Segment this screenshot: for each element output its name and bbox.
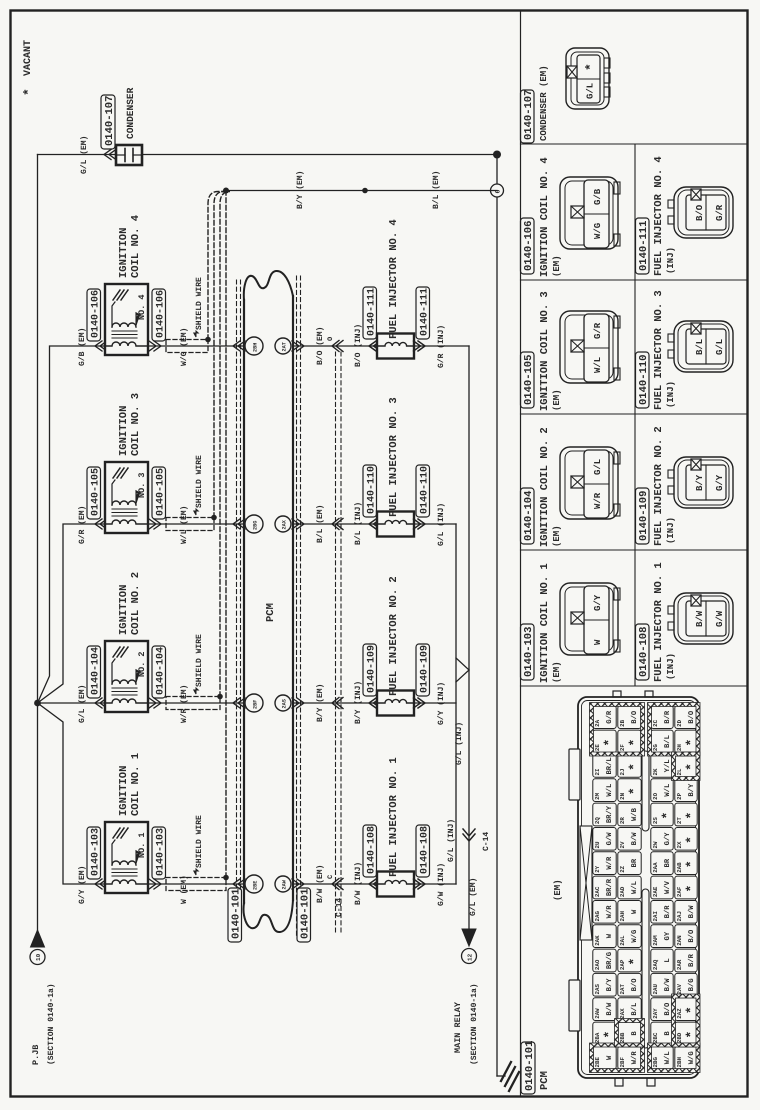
- svg-text:B/Y (INJ): B/Y (INJ): [354, 681, 363, 724]
- PCM pin cell 2U G/W: [593, 827, 616, 850]
- PCM pin cell 2AA BR: [651, 852, 673, 875]
- svg-text:2BC: 2BC: [652, 1032, 659, 1043]
- PCM pin 2AX: [275, 516, 291, 532]
- svg-text:2N: 2N: [619, 792, 626, 799]
- svg-text:(EM): (EM): [552, 661, 562, 683]
- svg-text:2B: 2B: [619, 719, 626, 726]
- svg-text:W (EM): W (EM): [180, 875, 189, 904]
- svg-text:2AD: 2AD: [619, 886, 626, 897]
- panel cell fuel injector no.3: [636, 352, 650, 408]
- wire branch to ignition coil no.1: [38, 703, 106, 884]
- connector label 0140-104 left: [87, 646, 101, 698]
- ignition coil no.1 box: [105, 822, 148, 893]
- svg-text:2BB: 2BB: [619, 1032, 626, 1043]
- connector chevron injector 4 right: [414, 341, 426, 351]
- svg-text:2BG: 2BG: [253, 521, 259, 530]
- svg-text:BR: BR: [664, 858, 672, 867]
- svg-text:B/L (EM): B/L (EM): [316, 505, 325, 543]
- PCM pin cell 2AC BR/R: [593, 876, 616, 899]
- svg-text:SHIELD WIRE: SHIELD WIRE: [195, 634, 204, 687]
- svg-text:0140-104: 0140-104: [156, 647, 167, 695]
- connector chevron injector 1 right: [414, 879, 426, 889]
- svg-text:B/O: B/O: [695, 204, 705, 221]
- svg-text:*: *: [684, 812, 699, 820]
- svg-text:Y/L: Y/L: [663, 759, 672, 772]
- wire branch to ignition coil no.3: [38, 524, 106, 703]
- PCM connector side latch lower: [569, 980, 580, 1031]
- PCM pin cell 2V B/W: [618, 827, 641, 850]
- PCM pin cell 2I BR/L: [593, 754, 616, 777]
- svg-text:G/R: G/R: [605, 710, 614, 724]
- coil 3 internal ground: [113, 468, 120, 478]
- coil 1 core: [112, 875, 137, 877]
- connector C-14 harness boundary dashed lines: [335, 352, 337, 935]
- svg-text:G/B (EM): G/B (EM): [78, 328, 87, 366]
- svg-text:2E: 2E: [594, 744, 601, 751]
- svg-text:W/G: W/G: [630, 930, 639, 943]
- panel cell fuel injector no.2: [636, 488, 650, 544]
- connector label 0140-101 left: [228, 888, 242, 942]
- connector chevron injector 2 right: [414, 698, 426, 708]
- svg-text:VACANT: VACANT: [23, 40, 34, 76]
- svg-text:W: W: [606, 1055, 614, 1060]
- connector C-14 chevron row 3: [332, 519, 343, 530]
- svg-text:0140-111: 0140-111: [420, 288, 431, 336]
- svg-text:*: *: [684, 860, 699, 868]
- shield wire box coil 3: [166, 518, 214, 531]
- svg-text:0140-106: 0140-106: [156, 290, 167, 338]
- svg-text:NO. 4: NO. 4: [137, 294, 147, 320]
- svg-text:0140-106: 0140-106: [91, 290, 102, 338]
- svg-text:2BE: 2BE: [253, 881, 259, 890]
- coil 2 core: [112, 694, 137, 696]
- svg-text:G/W: G/W: [605, 832, 614, 846]
- connector drawing condenser: [566, 48, 609, 109]
- svg-text:0140-110: 0140-110: [638, 355, 650, 405]
- svg-text:G/B: G/B: [593, 188, 603, 205]
- svg-text:G/Y: G/Y: [663, 832, 672, 846]
- svg-text:FUEL INJECTOR NO. 3: FUEL INJECTOR NO. 3: [653, 290, 665, 410]
- PCM pin cell 2B B/O: [618, 706, 641, 729]
- coil 2 internal ground: [113, 647, 120, 657]
- svg-text:2AC: 2AC: [594, 886, 601, 897]
- svg-text:2AT: 2AT: [282, 342, 288, 351]
- connector chevron PCM left row 4: [233, 341, 245, 351]
- PCM pin cell 2AH W: [618, 900, 641, 923]
- PCM pin cell 2S *: [651, 803, 673, 826]
- PCM pin cell 2K Y/L: [651, 754, 673, 777]
- svg-text:PCM: PCM: [539, 1071, 551, 1090]
- svg-text:2BD: 2BD: [676, 1032, 683, 1043]
- coil 4 secondary winding: [112, 323, 136, 327]
- svg-text:IGNITION: IGNITION: [118, 406, 130, 456]
- svg-text:B/Y (EM): B/Y (EM): [316, 684, 325, 722]
- PCM pin cell 2AN B/O: [675, 925, 697, 948]
- svg-text:B/O: B/O: [687, 710, 696, 724]
- svg-text:W/V: W/V: [663, 880, 672, 894]
- ignition coil no.4 box: [105, 284, 148, 355]
- connector label 0140-107 condenser: [101, 95, 115, 149]
- PCM pin cell 2AJ B/W: [675, 900, 697, 923]
- wire G/L (EM) top run to condenser and ground node: [38, 154, 117, 156]
- svg-text:W/R: W/R: [630, 1051, 639, 1065]
- svg-text:0140-111: 0140-111: [638, 221, 650, 271]
- PCM pin cell 2T *: [675, 803, 697, 826]
- svg-text:B/W: B/W: [605, 1002, 614, 1016]
- connector chevron coil 2 right: [149, 698, 161, 708]
- PCM connector side latch upper: [569, 749, 580, 800]
- svg-text:2AY: 2AY: [652, 1008, 659, 1019]
- connector label 0140-101 right: [297, 888, 311, 942]
- svg-text:2R: 2R: [619, 817, 626, 824]
- svg-text:2AF: 2AF: [676, 886, 683, 897]
- connector chevron PCM right row 3: [292, 519, 304, 529]
- svg-text:B/L (INJ): B/L (INJ): [354, 502, 363, 545]
- PCM pin cell 2AG W/R: [593, 900, 616, 923]
- panel cell condenser 0140-107: [521, 90, 535, 143]
- svg-text:W/R: W/R: [605, 905, 614, 919]
- panel divider columns: [634, 144, 636, 686]
- PCM pin cell 2AP *: [618, 949, 641, 972]
- wire B/Y (EM) shield drain bus: [226, 190, 497, 192]
- PCM pin cell 2AB *: [675, 852, 697, 875]
- svg-text:NO. 2: NO. 2: [137, 651, 147, 677]
- connector drawing ignition coil no.1: [560, 583, 618, 655]
- PCM pin cell 2E *: [593, 730, 616, 753]
- svg-text:B/Y (EM): B/Y (EM): [296, 171, 305, 209]
- wire ground drain vertical: [496, 155, 498, 1077]
- svg-text:2AQ: 2AQ: [652, 959, 659, 970]
- connector C-14 chevron row 1: [332, 879, 343, 890]
- wire injector supply collector vertical: [455, 524, 457, 884]
- svg-text:W: W: [593, 639, 603, 645]
- fuel injector no.2 box: [377, 691, 414, 716]
- PCM connector X brace: [580, 826, 592, 940]
- svg-text:B/W: B/W: [695, 610, 705, 627]
- PCM pin cell 2BC B: [651, 1022, 673, 1045]
- panel divider main: [520, 11, 522, 1095]
- svg-text:W/L: W/L: [663, 1051, 672, 1064]
- svg-text:B: B: [631, 1031, 639, 1036]
- svg-text:G/L: G/L: [715, 339, 725, 355]
- fuel injector no.3 box: [377, 512, 414, 537]
- svg-text:B/O: B/O: [630, 978, 639, 992]
- svg-text:0140-111: 0140-111: [367, 288, 378, 336]
- PCM pin cell 2AK W: [593, 925, 616, 948]
- svg-text:(INJ): (INJ): [666, 381, 676, 408]
- PCM pin 2AS: [275, 695, 291, 711]
- svg-text:P.JB: P.JB: [31, 1045, 41, 1065]
- svg-text:NO. 3: NO. 3: [137, 472, 147, 498]
- svg-text:2AI: 2AI: [652, 911, 659, 922]
- svg-text:FUEL INJECTOR NO. 4: FUEL INJECTOR NO. 4: [653, 156, 665, 276]
- connector C-14 chevron on G/L: [463, 829, 475, 841]
- coil 1 spark arrow: [136, 851, 140, 865]
- svg-text:B/G: B/G: [687, 978, 696, 991]
- svg-text:(SECTION 0140-1a): (SECTION 0140-1a): [470, 983, 479, 1065]
- shield wire box coil 2: [166, 697, 220, 710]
- PCM pin cell 2R W/B: [618, 803, 641, 826]
- PCM pin cell 2AV B/G: [675, 973, 697, 996]
- svg-text:B/W (INJ): B/W (INJ): [354, 862, 363, 905]
- svg-text:2AE: 2AE: [652, 886, 659, 897]
- svg-text:W/R: W/R: [593, 492, 603, 509]
- svg-text:2AN: 2AN: [676, 935, 683, 946]
- connector chevron PCM right row 1: [292, 879, 304, 889]
- svg-text:0140-108: 0140-108: [638, 627, 650, 677]
- svg-text:0140-104: 0140-104: [91, 647, 102, 695]
- PCM shield dashed rails left: [236, 280, 238, 940]
- coil 1 secondary winding: [112, 861, 136, 865]
- svg-text:2D: 2D: [676, 719, 683, 726]
- svg-text:0140-109: 0140-109: [638, 491, 650, 541]
- connector chevron coil 1 right: [149, 879, 161, 889]
- connector chevron condenser: [104, 150, 116, 160]
- svg-text:G/Y: G/Y: [715, 474, 725, 491]
- connector chevron PCM left row 2: [233, 698, 245, 708]
- svg-text:2H: 2H: [676, 744, 683, 751]
- svg-text:IGNITION COIL NO. 2: IGNITION COIL NO. 2: [539, 427, 551, 547]
- coil 1 primary winding: [105, 880, 148, 884]
- svg-text:0140-110: 0140-110: [367, 466, 378, 514]
- wire G/L (INJ) main vertical: [468, 346, 470, 929]
- svg-text:G/R: G/R: [715, 204, 725, 221]
- connector label 0140-109 left: [363, 644, 377, 696]
- coil 4 spark arrow: [136, 313, 140, 327]
- connector chevron injector 3 right: [414, 519, 426, 529]
- svg-text:B/O (EM): B/O (EM): [316, 327, 325, 365]
- svg-text:B/Y: B/Y: [687, 783, 696, 797]
- svg-text:C-14: C-14: [482, 832, 491, 851]
- connector chevron coil 1 left: [95, 879, 107, 889]
- svg-text:W/L: W/L: [593, 357, 603, 373]
- connector label 0140-111 right: [416, 287, 430, 339]
- PCM pin cell 2J *: [618, 754, 641, 777]
- svg-text:*: *: [627, 787, 642, 795]
- PCM pin cell 2D B/O: [675, 706, 697, 729]
- svg-text:G/Y (EM): G/Y (EM): [78, 866, 87, 904]
- coil 3 secondary winding: [112, 501, 136, 505]
- svg-text:2AW: 2AW: [594, 1008, 601, 1019]
- PCM connector housing: [578, 697, 699, 1078]
- svg-text:G/L (EM): G/L (EM): [469, 878, 478, 916]
- svg-text:0140-107: 0140-107: [104, 96, 116, 146]
- connector label 0140-103 left: [87, 827, 101, 879]
- svg-text:0140-105: 0140-105: [91, 468, 102, 516]
- svg-text:BR/G: BR/G: [605, 952, 614, 969]
- svg-text:2AL: 2AL: [619, 935, 626, 946]
- svg-text:2W: 2W: [652, 841, 659, 848]
- svg-text:2AK: 2AK: [594, 935, 601, 946]
- ground chassis symbol: [501, 1062, 511, 1081]
- PCM pin cell 2AT B/O: [618, 973, 641, 996]
- connector drawing ignition coil no.3: [560, 311, 618, 383]
- connector label 0140-108 right: [416, 825, 430, 877]
- svg-text:2S: 2S: [652, 817, 659, 824]
- svg-text:0140-101: 0140-101: [231, 889, 243, 939]
- svg-text:2AT: 2AT: [619, 984, 626, 995]
- svg-text:2AB: 2AB: [676, 862, 683, 873]
- PCM pin cell 2Y W/R: [593, 852, 616, 875]
- PCM pin cell 2AL W/G: [618, 925, 641, 948]
- connector chevron coil 2 left: [95, 698, 107, 708]
- svg-text:2C: 2C: [652, 719, 659, 726]
- svg-text:0140-104: 0140-104: [523, 491, 535, 541]
- svg-text:B/L (EM): B/L (EM): [432, 171, 441, 209]
- svg-text:COIL NO. 1: COIL NO. 1: [130, 753, 142, 816]
- svg-text:2K: 2K: [652, 768, 659, 775]
- svg-text:2AW: 2AW: [282, 879, 288, 889]
- PCM pin cell 2BB B: [618, 1022, 641, 1045]
- coil 1 internal ground: [113, 828, 120, 838]
- PCM pin cell 2AY B/O: [651, 998, 673, 1021]
- svg-text:MAIN RELAY: MAIN RELAY: [453, 1001, 463, 1053]
- coil 2 primary winding: [105, 699, 148, 703]
- svg-text:2G: 2G: [652, 744, 659, 751]
- PCM pin cell 2BF W/R: [618, 1046, 641, 1069]
- svg-text:W/L (EM): W/L (EM): [180, 506, 189, 544]
- connector drawing fuel injector no.4: [674, 187, 733, 238]
- svg-text:B/R: B/R: [663, 905, 672, 919]
- svg-text:W/L: W/L: [630, 881, 639, 894]
- svg-text:W/R (EM): W/R (EM): [180, 685, 189, 723]
- svg-text:2AO: 2AO: [594, 959, 601, 970]
- wire branch to ignition coil no.2: [38, 702, 106, 704]
- svg-text:L: L: [664, 958, 672, 962]
- coil 4 core: [112, 337, 137, 339]
- capacitor condenser 0140-107: [116, 145, 142, 165]
- svg-text:G/L (INJ): G/L (INJ): [447, 819, 456, 862]
- ignition coil no.2 box: [105, 641, 148, 712]
- svg-text:0140-107: 0140-107: [523, 90, 535, 140]
- svg-text:*: *: [627, 763, 642, 771]
- svg-text:IGNITION COIL NO. 4: IGNITION COIL NO. 4: [539, 157, 551, 277]
- shield wire box coil 1: [166, 878, 226, 891]
- node dot shield bus left: [223, 188, 229, 194]
- connector label 0140-103 right: [152, 827, 166, 879]
- svg-text:IGNITION: IGNITION: [118, 766, 130, 816]
- svg-text:0140-109: 0140-109: [420, 645, 431, 693]
- svg-text:W: W: [606, 933, 614, 938]
- svg-text:CONDENSER: CONDENSER: [125, 87, 136, 139]
- connector drawing ignition coil no.4: [560, 177, 618, 249]
- connector label 0140-104 right: [152, 646, 166, 698]
- PCM pin cell 2AE W/V: [651, 876, 673, 899]
- PCM pin cell 2BH W/G: [675, 1046, 697, 1069]
- PCM pin cell 2N *: [618, 779, 641, 802]
- shield wire box coil 4: [166, 340, 208, 353]
- svg-text:0140-101: 0140-101: [524, 1041, 536, 1091]
- svg-text:2AS: 2AS: [594, 984, 601, 995]
- PCM pin cell 2AD W/L: [618, 876, 641, 899]
- svg-text:FUEL INJECTOR NO. 1: FUEL INJECTOR NO. 1: [653, 562, 665, 682]
- svg-text:*: *: [22, 88, 37, 96]
- svg-text:G/W: G/W: [715, 610, 725, 627]
- coil 4 internal ground: [113, 290, 120, 300]
- svg-text:2AG: 2AG: [594, 911, 601, 922]
- PCM pin 2AW: [275, 876, 291, 892]
- coil 2 secondary winding: [112, 680, 136, 684]
- connector chevron coil 3 left: [95, 519, 107, 529]
- svg-text:2BA: 2BA: [594, 1032, 601, 1043]
- svg-text:W: W: [631, 909, 639, 914]
- svg-text:0140-105: 0140-105: [156, 468, 167, 516]
- svg-text:2BF: 2BF: [619, 1056, 626, 1067]
- svg-text:2BF: 2BF: [253, 700, 259, 709]
- connector drawing fuel injector no.1: [674, 593, 733, 644]
- svg-text:B/W: B/W: [663, 978, 672, 992]
- connector label 0140-109 right: [416, 644, 430, 696]
- wire B/Y (EM) PCM to C-14 row 2: [293, 702, 377, 704]
- connector chevron injector 4 left: [369, 341, 381, 351]
- svg-text:W/L: W/L: [605, 784, 614, 797]
- svg-text:G/L (INJ): G/L (INJ): [455, 722, 464, 765]
- svg-text:W/L: W/L: [663, 784, 672, 797]
- svg-text:2BH: 2BH: [253, 343, 259, 352]
- panel cell fuel injector no.1: [636, 624, 650, 680]
- PCM pin cell 2AW B/W: [593, 998, 616, 1021]
- connector drawing ignition coil no.2: [560, 447, 618, 519]
- coil 4 primary winding: [105, 342, 148, 346]
- svg-text:2AU: 2AU: [652, 984, 659, 995]
- svg-text:W/G: W/G: [687, 1051, 696, 1064]
- svg-text:B/O (INJ): B/O (INJ): [354, 324, 363, 367]
- connector chevron PCM right row 4: [292, 341, 304, 351]
- svg-text:2P: 2P: [676, 792, 683, 799]
- wire W/L (EM) coil 3 to PCM: [148, 523, 244, 525]
- wire shield drain dashed line 4: [225, 192, 227, 878]
- PCM pin 2AT: [275, 338, 291, 354]
- svg-text:(INJ): (INJ): [666, 517, 676, 544]
- coil 3 core: [112, 515, 137, 517]
- svg-text:G/L: G/L: [586, 83, 596, 99]
- svg-text:C: C: [327, 875, 335, 879]
- svg-text:FUEL INJECTOR NO. 3: FUEL INJECTOR NO. 3: [388, 397, 400, 517]
- svg-text:2Q: 2Q: [594, 817, 601, 824]
- wire B/W (EM) PCM to C-14 row 1: [293, 883, 377, 885]
- PCM pin cell 2AI B/R: [651, 900, 673, 923]
- PCM main unit bar: [243, 300, 245, 903]
- connector label 0140-111 left: [363, 287, 377, 339]
- PCM pin cell 2O W/L: [651, 779, 673, 802]
- svg-text:B: B: [664, 1031, 672, 1036]
- svg-text:SHIELD WIRE: SHIELD WIRE: [195, 277, 204, 330]
- svg-text:2AA: 2AA: [652, 862, 659, 873]
- connector chevron coil 4 left: [95, 341, 107, 351]
- svg-text:CONDENSER (EM): CONDENSER (EM): [539, 65, 549, 141]
- svg-text:B/Y: B/Y: [605, 978, 614, 992]
- wire G/W (INJ) injector 1 out: [414, 883, 456, 885]
- connector chevron injector 1 left: [369, 879, 381, 889]
- svg-text:(EM): (EM): [552, 525, 562, 547]
- PCM pin cell 2AX B/L: [618, 998, 641, 1021]
- svg-text:W/B: W/B: [630, 807, 639, 821]
- svg-text:2BE: 2BE: [594, 1056, 601, 1067]
- svg-text:BR/Y: BR/Y: [605, 805, 614, 823]
- svg-text:0140-109: 0140-109: [367, 645, 378, 693]
- PCM pin cell 2AO BR/G: [593, 949, 616, 972]
- wire shield drain dashed line 2: [214, 192, 226, 518]
- PCM pin cell 2AF *: [675, 876, 697, 899]
- svg-text:COIL NO. 4: COIL NO. 4: [130, 215, 142, 278]
- fuel injector no.1 box: [377, 872, 414, 897]
- panel cell ignition coil no.2: [521, 488, 535, 544]
- PCM pin cell 2BG W/L: [651, 1046, 673, 1069]
- PCM keying hatch top-right: [648, 703, 701, 757]
- wire W/R (EM) coil 2 to PCM: [148, 702, 244, 704]
- svg-text:2X: 2X: [676, 841, 683, 848]
- svg-text:2AS: 2AS: [282, 699, 288, 708]
